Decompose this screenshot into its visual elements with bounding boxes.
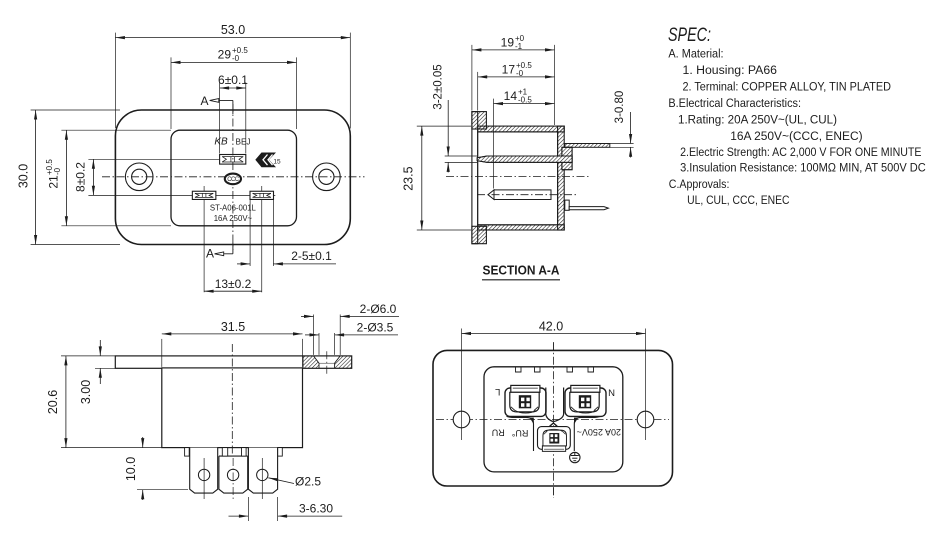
svg-text:RU: RU xyxy=(492,427,505,437)
extension line for 8 dim - top slot axis xyxy=(88,158,219,160)
svg-text:21: 21 xyxy=(46,175,60,189)
front view vertical centerline / section cut line A-A xyxy=(232,104,234,250)
dimension 42.0 xyxy=(461,329,463,351)
svg-text:A: A xyxy=(206,247,214,261)
svg-text:Ø2.5: Ø2.5 xyxy=(295,475,321,489)
flange bottom tab xyxy=(472,226,487,243)
countersink hole outline xyxy=(302,356,304,368)
svg-text:SPEC:: SPEC: xyxy=(668,25,711,46)
svg-text:20.6: 20.6 xyxy=(46,390,60,414)
inner top edge notches xyxy=(516,367,522,372)
pin hole 1 xyxy=(198,469,209,480)
svg-text:2-5±0.1: 2-5±0.1 xyxy=(291,249,332,263)
svg-text:N: N xyxy=(608,386,615,397)
dimension 14 +1/-0.5 xyxy=(493,99,495,189)
line contact pin (section) xyxy=(477,156,572,162)
side flange plate xyxy=(115,356,351,368)
dimension 30.0 left xyxy=(31,109,120,111)
rating text 20A 250V~ (rotated) xyxy=(577,427,621,437)
svg-text:3.Insulation Resistance: 100MΩ: 3.Insulation Resistance: 100MΩ MIN, AT 5… xyxy=(680,161,926,175)
earth pin (round, unsectioned) xyxy=(488,190,494,200)
dimension 23.5 left of section xyxy=(417,125,471,127)
svg-text:16A 250V~(CCC, ENEC): 16A 250V~(CCC, ENEC) xyxy=(730,129,862,143)
cert mark cUR (rotated) xyxy=(511,428,528,438)
mounting flange plate (section, web unsectioned) xyxy=(472,112,478,244)
svg-text:-0: -0 xyxy=(232,54,240,63)
section main centerline xyxy=(446,175,590,177)
side view vertical centerline xyxy=(231,344,233,456)
svg-text:2. Terminal: COPPER ALLOY, TI: 2. Terminal: COPPER ALLOY, TIN PLATED xyxy=(683,80,892,94)
bottom-left slot (contact) xyxy=(192,191,216,199)
svg-text:15: 15 xyxy=(273,159,281,166)
svg-text:KB: KB xyxy=(214,137,228,148)
E terminal pocket (rotated 180) xyxy=(538,427,571,452)
svg-text:17: 17 xyxy=(502,62,516,76)
front view outer housing flange (53x30) xyxy=(115,110,350,245)
svg-text:6±0.1: 6±0.1 xyxy=(218,73,248,87)
earth pin centerline xyxy=(477,194,576,196)
svg-text:13±0.2: 13±0.2 xyxy=(215,277,252,291)
svg-text:16A 250V~: 16A 250V~ xyxy=(214,214,253,223)
svg-text:2.Electric Strength: AC 2,000: 2.Electric Strength: AC 2,000 V FOR ONE … xyxy=(680,145,921,159)
earthing screw symbol xyxy=(570,452,580,462)
right mounting hole xyxy=(313,163,341,191)
svg-text:CCC: CCC xyxy=(227,177,239,183)
svg-text:L: L xyxy=(495,386,500,397)
pointed tent above earth pocket xyxy=(550,423,558,426)
svg-text:-0.5: -0.5 xyxy=(518,96,532,105)
bottom-right slot (contact) xyxy=(250,191,274,199)
dimension 10.0 pins xyxy=(137,489,188,491)
terminal pin 2 middle (side) xyxy=(219,456,248,493)
svg-text:-0: -0 xyxy=(53,167,62,175)
pin hole 3 xyxy=(257,469,268,480)
back view inner body xyxy=(484,367,623,472)
hole centerline xyxy=(326,351,328,375)
housing top wall (section) xyxy=(478,126,565,132)
pin hole 2 xyxy=(227,469,238,480)
svg-text:-0: -0 xyxy=(516,69,524,78)
N terminal pocket xyxy=(565,385,606,416)
svg-text:8±0.2: 8±0.2 xyxy=(73,162,87,192)
pocket recess contours xyxy=(507,416,534,451)
svg-text:31.5: 31.5 xyxy=(221,320,245,334)
dimension 2-03.5 flange hole xyxy=(318,333,320,355)
pin centerlines xyxy=(203,458,205,499)
svg-text:1. Housing: PA66: 1. Housing: PA66 xyxy=(683,63,778,77)
dimension 13 +-0.2 bottom xyxy=(204,290,262,292)
letter L marking (rotated) xyxy=(495,386,500,397)
dimension 3-2 +-0.05 (pin thickness) xyxy=(445,155,477,157)
svg-text:UL, CUL, CCC, ENEC: UL, CUL, CCC, ENEC xyxy=(687,193,790,207)
svg-text:C.Approvals:: C.Approvals: xyxy=(669,177,730,191)
svg-text:30.0: 30.0 xyxy=(17,164,31,188)
dimension 19 +0/-1 xyxy=(471,45,473,111)
svg-text:3.00: 3.00 xyxy=(79,380,93,404)
svg-text:42.0: 42.0 xyxy=(539,319,563,333)
svg-text:A: A xyxy=(200,94,208,108)
svg-text:10.0: 10.0 xyxy=(124,457,138,481)
dimension 2-5 +-0.1 xyxy=(237,263,250,265)
dimension 53.0 top xyxy=(114,33,116,128)
ext lines for 2-5 dim (right slot edges) xyxy=(249,200,251,266)
terminal pin 1 (side) xyxy=(190,448,218,494)
dimension 29 +0.5/-0 xyxy=(170,57,172,129)
dimension 3.00 flange thickness xyxy=(95,367,115,369)
back left mounting hole xyxy=(453,411,470,428)
svg-text:2-Ø6.0: 2-Ø6.0 xyxy=(360,302,397,316)
svg-text:20A 250V~: 20A 250V~ xyxy=(577,427,621,437)
dimension 3-0.80 (terminal thickness) xyxy=(610,143,634,145)
svg-text:3-0.80: 3-0.80 xyxy=(614,91,626,124)
dimension 6 +-0.1 (top slot width) xyxy=(219,83,221,154)
dimension 8 +-0.2 xyxy=(92,159,94,195)
back view horizontal centerline xyxy=(436,418,669,420)
svg-text:BEJ: BEJ xyxy=(236,138,251,147)
svg-text:ST-A06-001L: ST-A06-001L xyxy=(210,204,257,213)
L terminal pocket xyxy=(505,385,546,416)
top slot (N contact, 6mm) xyxy=(220,155,246,165)
letter N marking (rotated) xyxy=(608,386,615,397)
svg-text:2-Ø3.5: 2-Ø3.5 xyxy=(357,321,394,335)
svg-text:RU°: RU° xyxy=(511,428,528,438)
extension line for 8 dim - bottom slots axis xyxy=(88,194,275,196)
latch tab right xyxy=(278,448,283,457)
cavity interior xyxy=(478,133,557,225)
lower terminal tab xyxy=(565,200,569,210)
leader 02.5 pin hole dia xyxy=(268,478,294,484)
center channel between L and N xyxy=(546,388,553,422)
svg-text:53.0: 53.0 xyxy=(221,23,245,37)
flange breakout hatch right of hole xyxy=(335,356,352,368)
svg-text:B.Electrical Characteristics:: B.Electrical Characteristics: xyxy=(668,96,801,110)
dimension 21 +0.5/-0 xyxy=(61,129,171,131)
pin2 shoulders xyxy=(222,448,227,457)
redraw centerlines over white xyxy=(436,419,669,421)
svg-text:3-6.30: 3-6.30 xyxy=(299,502,333,516)
CCC logo ellipse xyxy=(225,174,241,185)
recess corner wedges xyxy=(529,418,534,425)
cert mark UR (rotated) xyxy=(492,427,505,437)
svg-text:29: 29 xyxy=(218,47,232,61)
dimension 17 +0.5/-0 xyxy=(477,72,479,111)
bottom slot centerline verticals (ext for 13 dim) xyxy=(203,186,205,292)
flange breakout hatch left of hole xyxy=(303,356,319,368)
svg-text:-1: -1 xyxy=(515,42,523,51)
flange top tab xyxy=(472,112,487,129)
svg-text:14: 14 xyxy=(504,89,518,103)
terminal crimp block behind wall xyxy=(562,147,572,169)
front view inner body opening (29x21) xyxy=(171,130,297,226)
approval chevron logo (EK mark) xyxy=(255,153,276,168)
back view vertical centerline xyxy=(552,342,554,498)
svg-text:23.5: 23.5 xyxy=(402,166,416,190)
dimension 2-06.0 flange hole xyxy=(313,315,315,355)
back hole vertical centerlines xyxy=(461,351,463,440)
latch tab left xyxy=(185,448,190,457)
back view outer housing xyxy=(433,350,673,486)
terminal pin 3 (side) xyxy=(248,448,277,494)
side body xyxy=(162,368,303,448)
front view horizontal centerline xyxy=(102,176,365,178)
left mounting hole xyxy=(125,163,153,191)
dimension 20.6 xyxy=(61,355,115,357)
back right mounting hole xyxy=(637,411,654,428)
svg-text:3-2±0.05: 3-2±0.05 xyxy=(433,64,445,109)
svg-text:A. Material:: A. Material: xyxy=(668,47,723,61)
dimension 3-6.30 xyxy=(247,497,249,521)
housing rear wall (section) xyxy=(558,126,565,230)
upper terminal tab (section) xyxy=(565,144,610,148)
dimension 31.5 xyxy=(161,339,163,367)
svg-text:19: 19 xyxy=(501,35,515,49)
housing bottom wall (section) xyxy=(478,225,565,230)
svg-text:1.Rating: 20A 250V~(UL, CUL): 1.Rating: 20A 250V~(UL, CUL) xyxy=(678,113,837,127)
svg-text:SECTION A-A: SECTION A-A xyxy=(483,264,560,278)
